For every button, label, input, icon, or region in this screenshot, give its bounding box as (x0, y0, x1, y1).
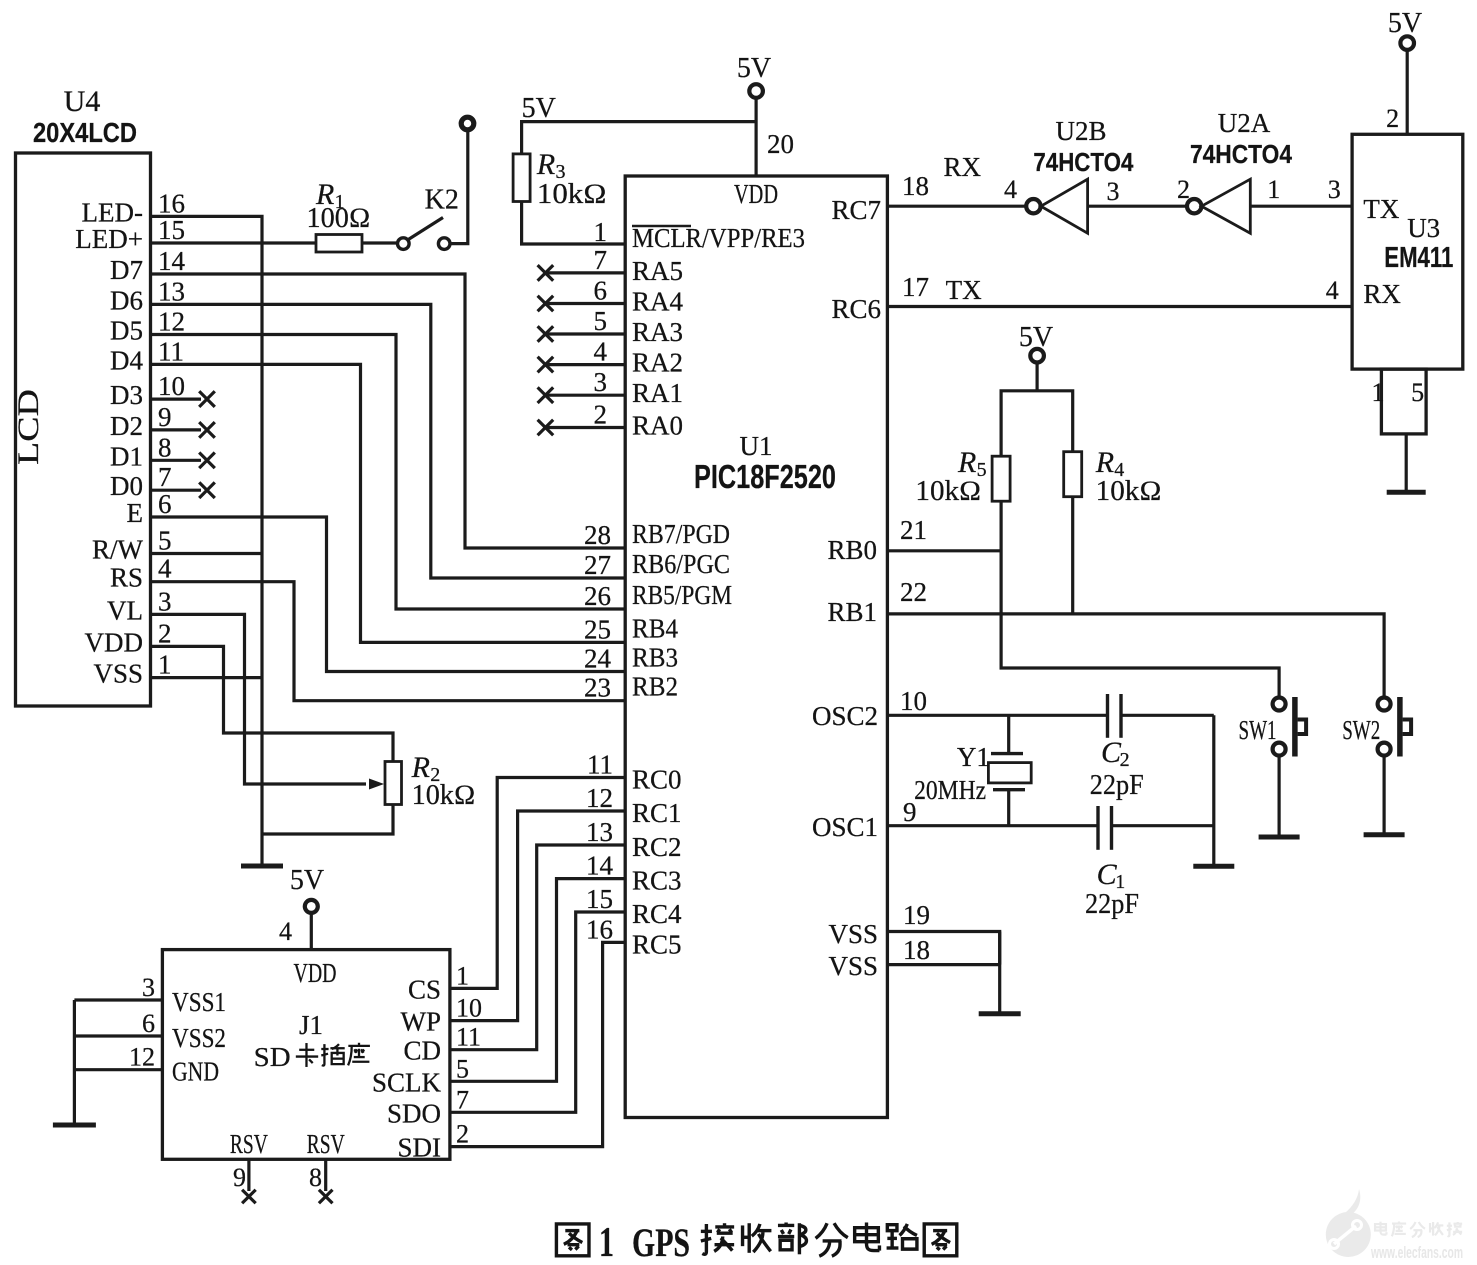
svg-text:10: 10 (900, 686, 927, 716)
svg-text:5V: 5V (522, 93, 556, 124)
svg-text:6: 6 (158, 489, 172, 519)
svg-text:R: R (1095, 446, 1114, 479)
svg-text:RSV: RSV (307, 1129, 345, 1159)
svg-text:22pF: 22pF (1090, 770, 1144, 801)
svg-text:9: 9 (158, 402, 172, 432)
svg-text:OSC1: OSC1 (812, 812, 878, 842)
wire RB0 pin21 to R5 (887, 549, 1001, 552)
wire VL to R2 wiper (151, 614, 367, 784)
svg-text:CS: CS (408, 974, 441, 1004)
wire LED- pin16 to ground rail (151, 216, 263, 866)
svg-text:RC5: RC5 (632, 929, 682, 959)
svg-text:5V: 5V (290, 865, 324, 896)
svg-text:10kΩ: 10kΩ (537, 179, 607, 210)
svg-text:SW2: SW2 (1342, 715, 1380, 745)
svg-text:10: 10 (158, 371, 185, 401)
svg-text:8: 8 (309, 1163, 322, 1192)
svg-text:5: 5 (456, 1054, 469, 1083)
inverter U2B 74HCT04 (1026, 199, 1040, 213)
svg-text:GND: GND (172, 1057, 219, 1087)
svg-text:8: 8 (158, 432, 172, 462)
wire C2 to ground rail (1121, 714, 1214, 717)
resistor R1 100ohm (316, 235, 362, 253)
ground (U1 VSS) (979, 1011, 1021, 1016)
svg-text:RC1: RC1 (632, 798, 682, 828)
svg-text:21: 21 (900, 515, 927, 545)
svg-text:2: 2 (594, 400, 608, 430)
svg-text:23: 23 (584, 673, 611, 703)
wire VDD pin2 to R2 top (151, 646, 394, 761)
svg-text:5V: 5V (1388, 8, 1422, 39)
resistor R5 10k (992, 456, 1010, 501)
watermark text (1375, 1222, 1386, 1235)
wire oscillator ground rail (1212, 715, 1215, 866)
ground (U3) (1387, 490, 1426, 495)
wire unconnected data stub (151, 489, 202, 492)
svg-text:3: 3 (158, 586, 172, 616)
wire OSC1 pin9 to C1 (887, 824, 1098, 827)
ground (SW2) (1364, 832, 1405, 837)
svg-text:3: 3 (142, 973, 155, 1002)
wire R4 bottom to RB1 net (1071, 497, 1074, 614)
svg-text:19: 19 (903, 900, 930, 930)
svg-text:6: 6 (142, 1009, 155, 1038)
svg-text:K2: K2 (425, 185, 459, 216)
svg-text:R: R (536, 148, 555, 181)
wire J1 grounds to ground (73, 1000, 76, 1125)
svg-text:D1: D1 (110, 441, 143, 471)
wire U2A input to U3 TX pin3 (1250, 205, 1352, 208)
potentiometer R2 10k (385, 762, 402, 805)
svg-text:RA3: RA3 (632, 317, 683, 347)
wire unconnected data stub (151, 428, 202, 431)
svg-text:SCLK: SCLK (372, 1067, 442, 1097)
svg-text:E: E (127, 498, 144, 528)
ground (J1) (53, 1123, 96, 1128)
svg-text:WP: WP (401, 1007, 442, 1037)
node supply terminal above K2 (461, 117, 474, 130)
capacitor C1 22pF (1096, 806, 1099, 850)
wire D7 to RB7 (151, 274, 626, 548)
svg-text:15: 15 (158, 215, 185, 245)
svg-text:10kΩ: 10kΩ (412, 780, 476, 811)
svg-text:U4: U4 (64, 85, 101, 118)
wire unconnected data stub (151, 398, 202, 401)
svg-text:RC4: RC4 (632, 899, 682, 929)
svg-text:10kΩ: 10kΩ (915, 476, 981, 507)
svg-text:RX: RX (1363, 279, 1401, 309)
svg-text:27: 27 (584, 550, 611, 580)
wire J1 WP to U1 (450, 811, 625, 1021)
wire C1 to ground rail (1112, 824, 1214, 827)
svg-text:1: 1 (594, 217, 608, 247)
svg-text:1: 1 (1267, 175, 1280, 204)
svg-text:11: 11 (158, 336, 184, 366)
svg-text:1: 1 (599, 1220, 614, 1265)
svg-text:RC2: RC2 (632, 832, 682, 862)
svg-text:GPS: GPS (632, 1220, 690, 1265)
IC U3 EM411 GPS module (1352, 134, 1463, 369)
wire 5V to J1 VDD pin4 (310, 913, 313, 950)
ground (LCD rail) (241, 864, 283, 869)
crystal Y1 20MHz (1007, 715, 1010, 753)
svg-text:RSV: RSV (230, 1129, 268, 1159)
wire U2B input to U2A output (1088, 205, 1187, 208)
wire 5V to PIC VDD pin20 (754, 98, 757, 176)
svg-text:RC0: RC0 (632, 765, 682, 795)
svg-text:5: 5 (1411, 378, 1424, 407)
svg-text:4: 4 (158, 554, 172, 584)
wire R3 to MCLR pin1 (522, 202, 626, 245)
svg-text:20MHz: 20MHz (914, 775, 986, 805)
svg-text:2: 2 (1177, 175, 1190, 204)
wire R5 bottom to SW1 (1001, 501, 1279, 697)
svg-text:7: 7 (158, 462, 172, 492)
svg-text:RB5/PGM: RB5/PGM (632, 580, 732, 610)
wire J1 SCLK to U1 (450, 879, 625, 1082)
caption figure title (556, 1224, 589, 1256)
svg-text:U1: U1 (740, 431, 773, 461)
svg-text:J1: J1 (299, 1010, 323, 1040)
svg-text:4: 4 (594, 337, 608, 367)
svg-text:RA1: RA1 (632, 378, 683, 408)
svg-text:www.elecfans.com: www.elecfans.com (1370, 1244, 1463, 1262)
wire J1 SDI to U1 (450, 942, 625, 1146)
svg-text:RX: RX (944, 152, 982, 182)
svg-text:74HCTO4: 74HCTO4 (1033, 147, 1133, 177)
svg-text:7: 7 (594, 245, 608, 275)
svg-text:Y1: Y1 (957, 742, 990, 772)
svg-text:18: 18 (902, 171, 929, 201)
svg-text:RA5: RA5 (632, 256, 683, 286)
svg-text:MCLR/VPP/RE3: MCLR/VPP/RE3 (632, 223, 805, 253)
svg-text:VDD: VDD (294, 958, 337, 988)
svg-text:RB0: RB0 (827, 535, 877, 565)
wire J1 SDO to U1 (450, 912, 625, 1112)
svg-text:20: 20 (767, 129, 794, 159)
svg-text:VSS: VSS (828, 919, 878, 949)
svg-text:R: R (957, 446, 976, 479)
svg-text:VDD: VDD (734, 179, 778, 209)
svg-text:12: 12 (129, 1043, 155, 1072)
svg-text:RC6: RC6 (831, 294, 881, 324)
wire R/W pin5 to ground rail (151, 552, 263, 555)
wire K2 to supply dot (450, 130, 468, 244)
svg-text:SD: SD (254, 1042, 291, 1072)
svg-text:10kΩ: 10kΩ (1096, 476, 1162, 507)
R2 wiper arrow (369, 779, 384, 790)
wire J1 CD to U1 (450, 845, 625, 1050)
svg-text:5: 5 (158, 526, 172, 556)
wire D4 to RB4 (151, 364, 626, 642)
capacitor C2 22pF (1106, 694, 1109, 738)
svg-text:RB2: RB2 (632, 672, 678, 702)
svg-text:LED+: LED+ (75, 224, 143, 254)
svg-text:LED-: LED- (82, 197, 143, 227)
ground (SW1) (1259, 835, 1300, 840)
svg-text:2: 2 (456, 1120, 469, 1149)
svg-text:4: 4 (279, 917, 292, 946)
wire R1 to K2 (362, 241, 398, 244)
wire unconnected data stub (151, 459, 202, 462)
svg-text:74HCTO4: 74HCTO4 (1190, 139, 1292, 169)
svg-text:4: 4 (1004, 175, 1017, 204)
svg-text:VDD: VDD (85, 627, 144, 657)
svg-text:RC3: RC3 (632, 866, 682, 896)
watermark logo (1326, 1212, 1371, 1257)
svg-text:22pF: 22pF (1085, 889, 1139, 920)
wire R2 bottom to ground rail (262, 805, 393, 835)
svg-text:18: 18 (903, 935, 930, 965)
wire D5 to RB5 (151, 335, 626, 610)
wire J1 CS to U1 (450, 778, 625, 989)
svg-text:D6: D6 (110, 285, 143, 315)
svg-text:5V: 5V (737, 53, 771, 84)
svg-text:26: 26 (584, 581, 611, 611)
svg-text:3: 3 (594, 367, 608, 397)
svg-text:RB4: RB4 (632, 613, 678, 643)
svg-text:4: 4 (1326, 276, 1339, 305)
svg-text:17: 17 (902, 272, 929, 302)
wire 5V rail to PIC VDD (522, 122, 757, 154)
wire VSS pin1 to ground rail (151, 676, 263, 679)
svg-text:EM411: EM411 (1384, 242, 1453, 274)
svg-text:D7: D7 (110, 255, 143, 285)
svg-text:3: 3 (1328, 175, 1341, 204)
svg-text:13: 13 (158, 276, 185, 306)
wire OSC2 pin10 to C2 (887, 714, 1107, 717)
wire U3 to ground (1405, 434, 1408, 492)
svg-text:OSC2: OSC2 (812, 701, 878, 731)
svg-text:25: 25 (584, 614, 611, 644)
svg-text:TX: TX (946, 275, 982, 305)
svg-text:20X4LCD: 20X4LCD (33, 117, 137, 148)
svg-text:7: 7 (456, 1085, 469, 1114)
svg-text:RA4: RA4 (632, 287, 684, 317)
svg-text:16: 16 (586, 914, 613, 944)
wire 5V to U3 pin2 (1406, 50, 1409, 134)
wire SW1 to ground (1277, 755, 1280, 837)
IC U1 PIC18F2520 (625, 176, 887, 1118)
svg-text:VL: VL (107, 595, 143, 625)
ground (oscillator) (1193, 864, 1234, 869)
wire RS to RB2 (151, 582, 626, 701)
svg-text:D3: D3 (110, 380, 143, 410)
IC J1 SD card socket (162, 950, 450, 1160)
switch SW2 pushbutton (1378, 698, 1391, 711)
svg-text:100Ω: 100Ω (307, 203, 371, 234)
svg-text:6: 6 (594, 276, 608, 306)
wire E to RB3 (151, 517, 626, 672)
svg-text:2: 2 (1386, 104, 1399, 133)
svg-text:12: 12 (586, 783, 613, 813)
svg-text:PIC18F2520: PIC18F2520 (694, 458, 836, 495)
wire 5V to R5/R4 bracket (1035, 363, 1038, 391)
wire LED+ pin15 to R1 (151, 241, 317, 244)
wire RB1 pin22 to R4 and SW2 (887, 614, 1384, 698)
svg-text:16: 16 (158, 188, 185, 218)
U3 bottom connector pins 1,5 (1381, 369, 1426, 434)
svg-text:12: 12 (158, 307, 185, 337)
svg-text:2: 2 (158, 618, 172, 648)
svg-text:RB6/PGC: RB6/PGC (632, 549, 730, 579)
switch K2 (398, 238, 410, 250)
svg-text:13: 13 (586, 817, 613, 847)
inverter U2A 74HCT04 (1187, 199, 1201, 213)
svg-text:3: 3 (1107, 177, 1120, 206)
svg-text:U2B: U2B (1055, 116, 1106, 146)
svg-text:1: 1 (1372, 378, 1385, 407)
svg-text:VSS: VSS (93, 659, 143, 689)
svg-text:D5: D5 (110, 316, 143, 346)
svg-text:24: 24 (584, 644, 612, 674)
svg-text:9: 9 (233, 1163, 246, 1192)
svg-text:R/W: R/W (92, 535, 144, 565)
svg-text:5: 5 (594, 306, 608, 336)
svg-text:RA0: RA0 (632, 411, 683, 441)
svg-text:D4: D4 (110, 345, 143, 375)
resistor R4 10k (1064, 452, 1082, 497)
svg-text:28: 28 (584, 520, 611, 550)
svg-text:RS: RS (110, 563, 143, 593)
svg-text:RB1: RB1 (827, 597, 877, 627)
svg-text:1: 1 (456, 961, 469, 990)
svg-text:15: 15 (586, 884, 613, 914)
svg-text:RB7/PGD: RB7/PGD (632, 519, 730, 549)
svg-text:U2A: U2A (1218, 108, 1271, 138)
svg-text:RC7: RC7 (831, 195, 881, 225)
svg-text:SDI: SDI (397, 1133, 441, 1163)
svg-text:VSS: VSS (828, 951, 878, 981)
svg-text:11: 11 (456, 1023, 481, 1052)
svg-text:LCD: LCD (12, 389, 45, 465)
resistor R3 10k (513, 154, 530, 202)
svg-text:14: 14 (586, 851, 614, 881)
wire RC7 to U2B output (887, 205, 1026, 208)
svg-text:VSS2: VSS2 (172, 1023, 226, 1053)
svg-text:11: 11 (587, 750, 613, 780)
IC U4 20X4LCD block (16, 153, 151, 706)
svg-text:U3: U3 (1407, 213, 1440, 243)
svg-text:14: 14 (158, 246, 186, 276)
wire RC6 to U3 RX pin4 (887, 305, 1352, 308)
svg-text:TX: TX (1363, 194, 1399, 224)
svg-text:CD: CD (403, 1036, 441, 1066)
svg-text:D0: D0 (110, 471, 143, 501)
svg-text:VSS1: VSS1 (172, 987, 226, 1017)
svg-text:RB3: RB3 (632, 643, 678, 673)
svg-text:SW1: SW1 (1239, 715, 1277, 745)
wire D6 to RB6 (151, 304, 626, 578)
svg-text:10: 10 (456, 994, 482, 1023)
svg-text:2: 2 (1120, 749, 1130, 771)
svg-text:D2: D2 (110, 411, 143, 441)
wire SW2 to ground (1382, 755, 1385, 834)
svg-text:RA2: RA2 (632, 348, 683, 378)
wire VSS pins to ground (887, 932, 999, 1014)
switch SW1 pushbutton (1273, 698, 1286, 711)
svg-text:22: 22 (900, 577, 927, 607)
svg-text:1: 1 (158, 650, 172, 680)
svg-text:SDO: SDO (387, 1098, 441, 1128)
